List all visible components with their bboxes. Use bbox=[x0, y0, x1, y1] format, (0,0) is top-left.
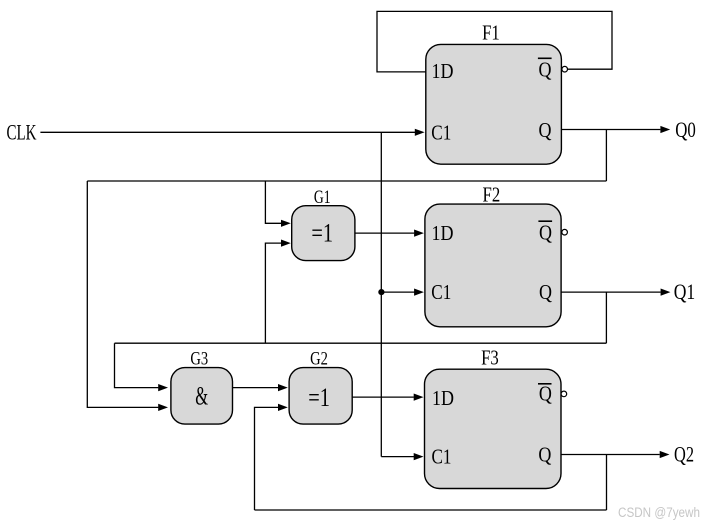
arrow into G2 input 1 bbox=[278, 384, 288, 391]
wire F2 Q output to Q1 bbox=[561, 291, 661, 293]
svg-text:G1: G1 bbox=[314, 187, 331, 208]
svg-text:Q: Q bbox=[538, 443, 551, 467]
svg-text:&: & bbox=[195, 382, 208, 411]
wire CLK horizontal to F1 C1 bbox=[40, 131, 415, 133]
svg-text:1D: 1D bbox=[432, 386, 454, 410]
wire G1 input 2 from net y=343 bbox=[265, 243, 281, 343]
svg-text:CSDN @7yewh: CSDN @7yewh bbox=[618, 505, 700, 520]
XOR gate G1 bbox=[292, 187, 355, 261]
wire CLK vertical distribution x=381 bbox=[380, 132, 382, 456]
wire bottom net y=510 bbox=[255, 509, 607, 511]
svg-text:G3: G3 bbox=[190, 348, 208, 369]
svg-text:Q: Q bbox=[539, 58, 552, 82]
wire F1 feedback Qbar to 1D bbox=[377, 11, 612, 72]
svg-text:Q: Q bbox=[539, 382, 552, 406]
pin Qbar bubble bbox=[562, 229, 568, 235]
arrow to node Q2 bbox=[660, 451, 670, 458]
flip-flop F3 bbox=[425, 345, 567, 488]
arrow into G1 input 1 bbox=[281, 220, 291, 227]
svg-text:1D: 1D bbox=[432, 59, 454, 83]
svg-text:=1: =1 bbox=[311, 219, 333, 248]
flip-flop F1 bbox=[426, 20, 568, 164]
arrow to node Q1 bbox=[661, 289, 671, 296]
svg-text:Q2: Q2 bbox=[674, 442, 694, 467]
arrow into F3 C1 bbox=[414, 453, 424, 460]
svg-text:C1: C1 bbox=[431, 120, 451, 144]
wire Q2 feedback drop bbox=[606, 455, 608, 511]
AND gate G3 bbox=[171, 348, 233, 424]
svg-text:Q0: Q0 bbox=[675, 117, 696, 142]
wire G1 output to F2 1D bbox=[355, 232, 414, 234]
junction dot at F2 C1 branch bbox=[378, 289, 384, 295]
wire G3 output to G2 input 1 bbox=[233, 387, 279, 389]
arrow into G3 input 2 bbox=[158, 404, 168, 411]
arrow into F2 1D bbox=[414, 230, 424, 237]
wire G2 output to F3 1D bbox=[352, 396, 414, 398]
wire left vertical x=87 down to G3 input 2 bbox=[87, 181, 158, 407]
wire horizontal net y=343 bbox=[115, 342, 607, 344]
wire F2 C1 stub bbox=[381, 291, 414, 293]
arrow into F3 1D bbox=[414, 394, 424, 401]
svg-text:C1: C1 bbox=[432, 444, 452, 468]
svg-text:=1: =1 bbox=[308, 383, 330, 412]
svg-text:Q: Q bbox=[539, 280, 552, 304]
svg-text:Q1: Q1 bbox=[674, 279, 696, 304]
wire horizontal net y=181 bbox=[87, 180, 606, 182]
wire branch x=265 down to G1 input 1 bbox=[265, 181, 281, 223]
wire G2 input 2 from bottom net bbox=[255, 407, 279, 510]
node Q2 bbox=[674, 442, 694, 467]
flip-flop F2 bbox=[425, 182, 567, 326]
svg-text:1D: 1D bbox=[432, 221, 454, 245]
svg-text:F1: F1 bbox=[482, 20, 500, 44]
svg-text:Q: Q bbox=[539, 221, 552, 245]
svg-text:Q: Q bbox=[539, 118, 552, 142]
wire Q1 feedback drop bbox=[605, 292, 607, 343]
wire Q0 feedback drop bbox=[605, 130, 607, 182]
pin Qbar bubble bbox=[562, 66, 568, 72]
arrow into F1 C1 bbox=[415, 129, 425, 136]
wire F3 Q output to Q2 bbox=[561, 454, 660, 456]
pin Qbar bubble bbox=[561, 391, 567, 397]
XOR gate G2 bbox=[289, 348, 352, 424]
node Q0 bbox=[675, 117, 696, 142]
arrow into G3 input 1 bbox=[158, 384, 168, 391]
svg-text:G2: G2 bbox=[310, 348, 328, 369]
wire F1 Q output to Q0 bbox=[561, 129, 660, 131]
node CLK bbox=[7, 120, 37, 145]
wire x=114 down to G3 input 1 bbox=[115, 343, 159, 387]
arrow into G2 input 2 bbox=[278, 404, 288, 411]
svg-text:F3: F3 bbox=[481, 345, 499, 369]
arrow into G1 input 2 bbox=[281, 240, 291, 247]
arrow into F2 C1 bbox=[414, 289, 424, 296]
wire F3 C1 stub bbox=[381, 456, 414, 458]
svg-text:CLK: CLK bbox=[7, 120, 37, 145]
arrow to node Q0 bbox=[660, 126, 670, 133]
node Q1 bbox=[674, 279, 696, 304]
svg-text:F2: F2 bbox=[483, 182, 501, 206]
svg-text:C1: C1 bbox=[431, 280, 451, 304]
